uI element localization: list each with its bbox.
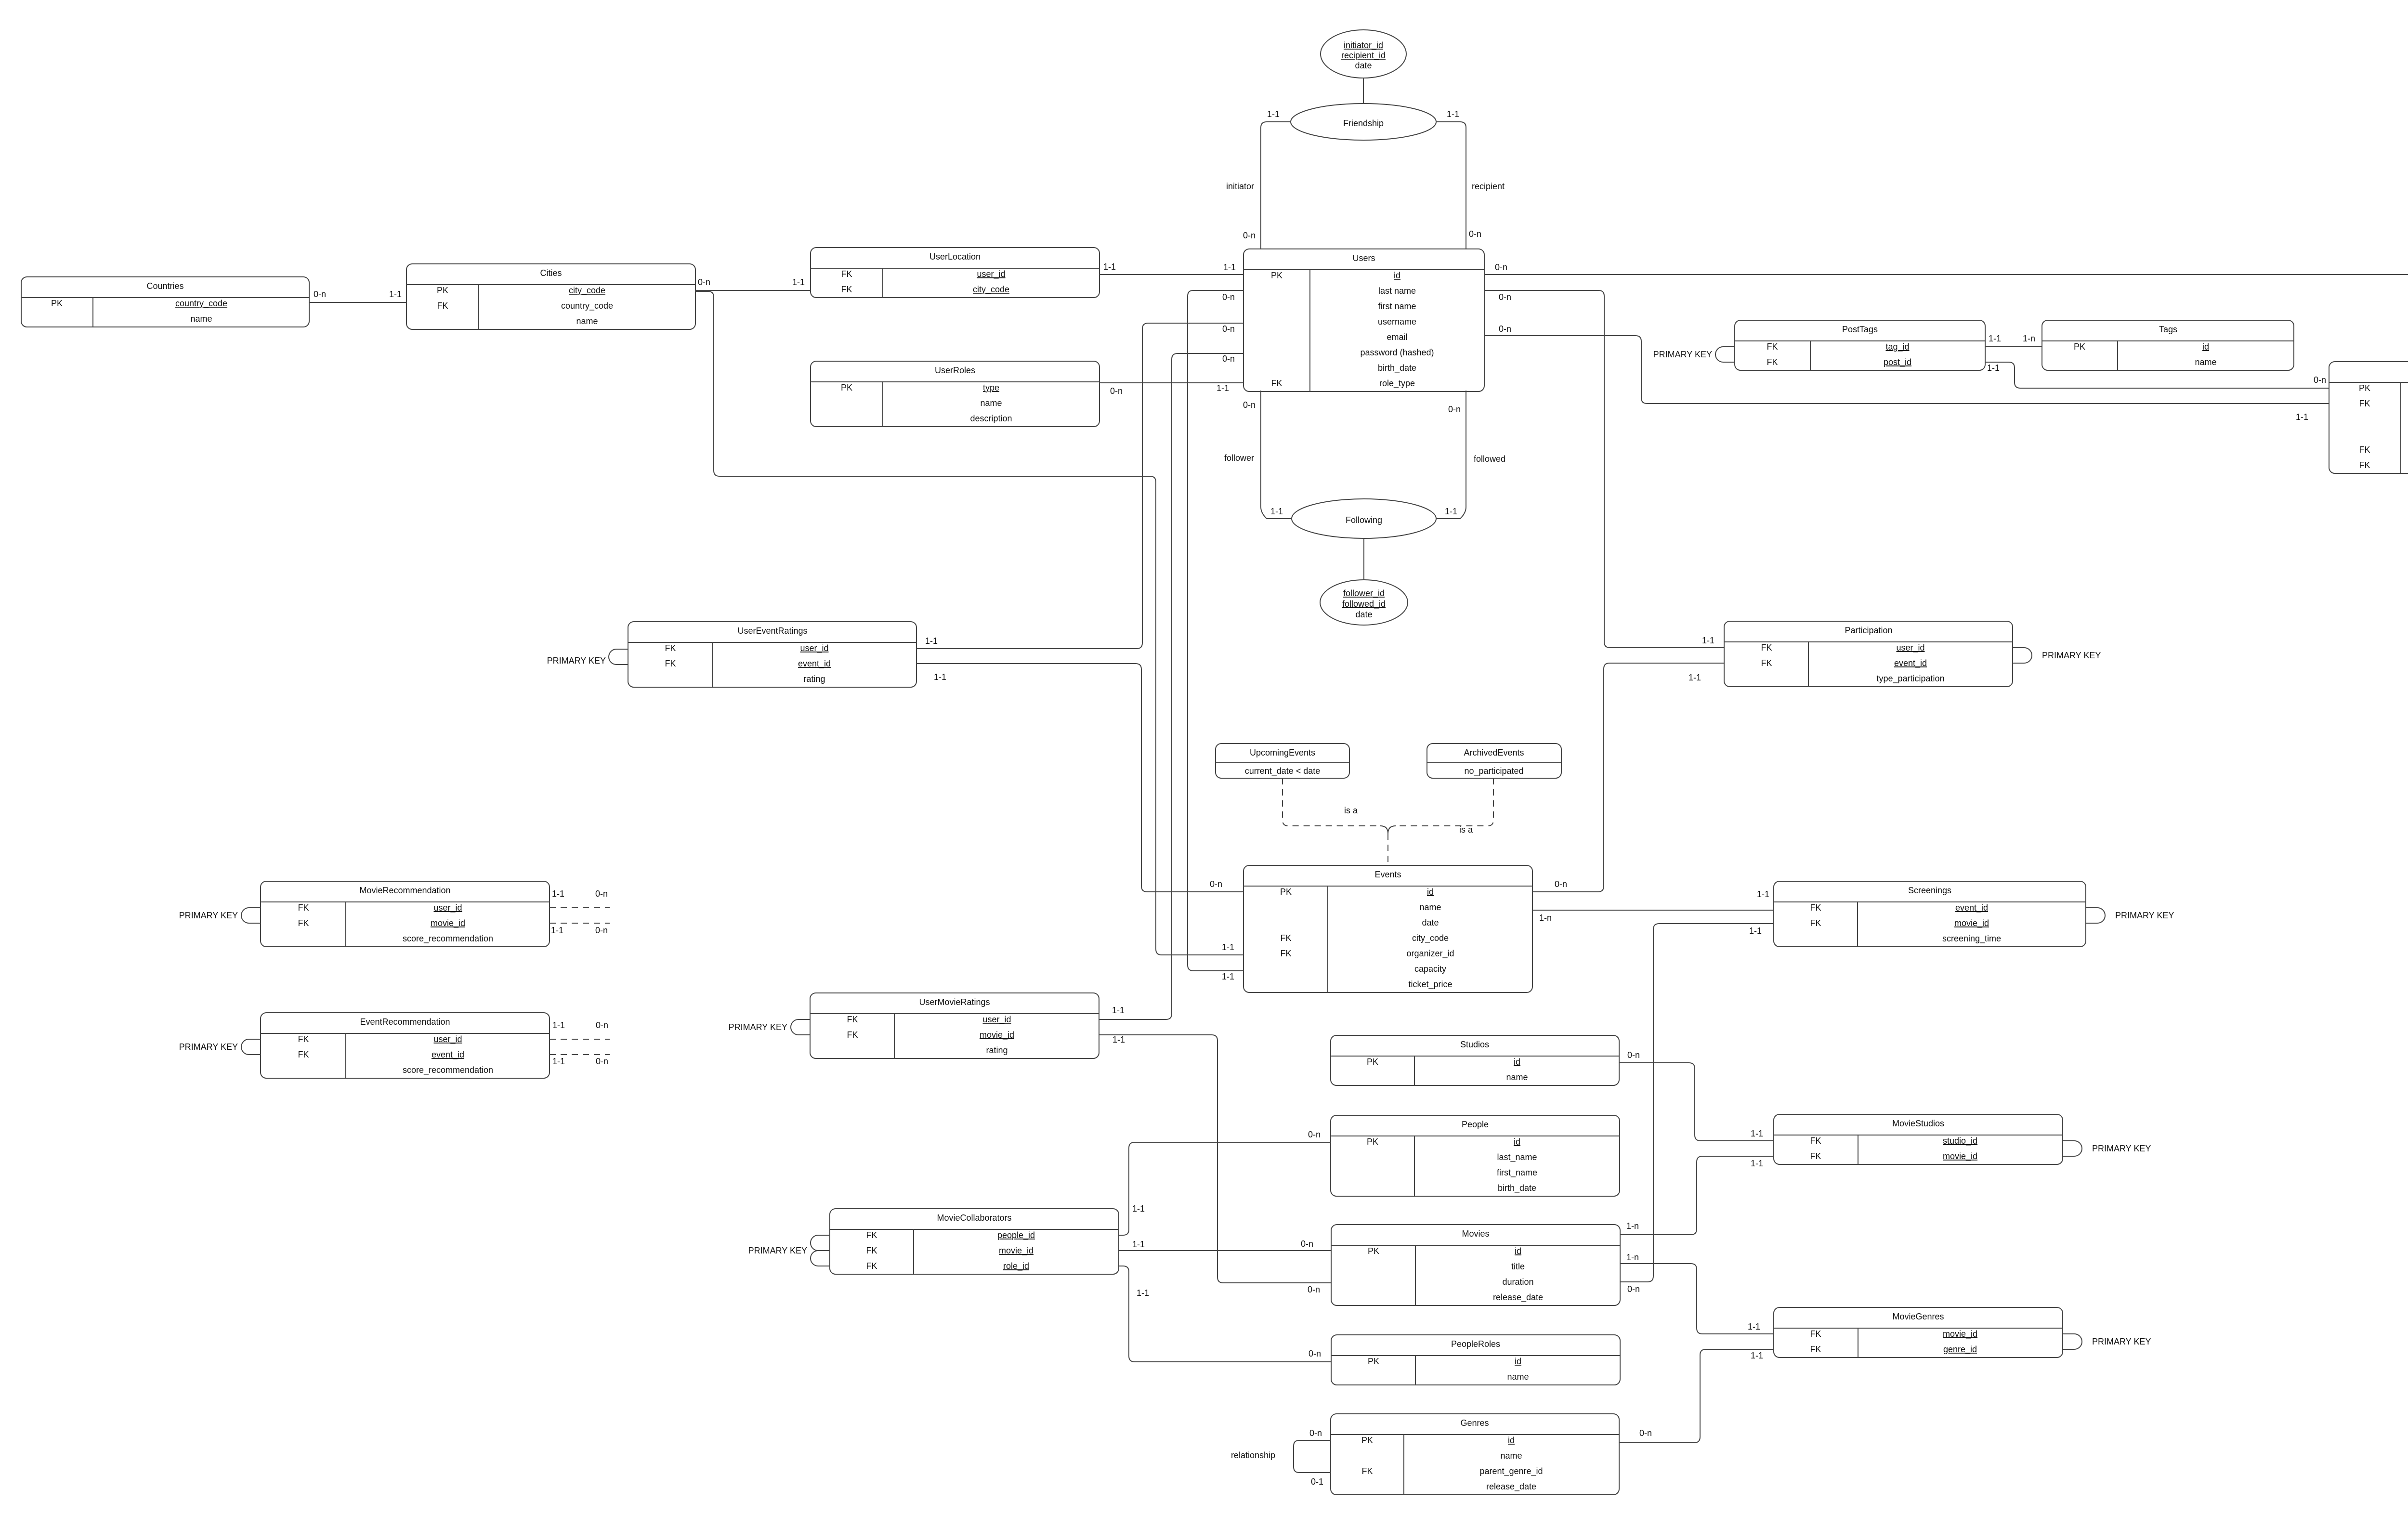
svg-text:FK: FK xyxy=(847,1030,858,1040)
svg-text:0-n: 0-n xyxy=(1555,879,1567,889)
svg-text:Users: Users xyxy=(1352,253,1375,263)
attribute ellipse for Following (follower_id, followed_id, date) xyxy=(1320,580,1408,625)
svg-text:MovieGenres: MovieGenres xyxy=(1892,1312,1944,1321)
entity table Movies xyxy=(1331,1225,1620,1305)
primary key bracket MovieStudios xyxy=(2063,1141,2082,1156)
svg-text:FK: FK xyxy=(1761,658,1772,668)
svg-text:1-1: 1-1 xyxy=(1757,889,1769,899)
entity table PeopleRoles xyxy=(1331,1335,1620,1385)
svg-text:movie_id: movie_id xyxy=(980,1030,1014,1040)
svg-text:1-1: 1-1 xyxy=(389,289,402,299)
svg-text:1-1: 1-1 xyxy=(1688,673,1701,682)
svg-text:1-1: 1-1 xyxy=(1112,1035,1125,1044)
primary key bracket MovieGenres xyxy=(2063,1334,2082,1349)
svg-text:ticket_price: ticket_price xyxy=(1408,979,1452,990)
svg-text:FK: FK xyxy=(2359,399,2370,408)
svg-text:1-1: 1-1 xyxy=(1748,1322,1760,1331)
primary key bracket MovieRecommendation xyxy=(241,908,261,923)
primary key bracket UserMovieRatings xyxy=(791,1019,810,1035)
wire Users follower to Following xyxy=(1261,391,1291,519)
entity table Screenings xyxy=(1774,881,2086,947)
wire Genres to MovieGenres xyxy=(1619,1349,1774,1443)
primary key bracket EventRecommendation xyxy=(241,1039,261,1055)
svg-text:0-n: 0-n xyxy=(698,277,710,287)
svg-text:1-1: 1-1 xyxy=(1749,926,1762,936)
wire Users to UserEventRatings user_id xyxy=(916,323,1243,649)
svg-text:PeopleRoles: PeopleRoles xyxy=(1451,1339,1500,1349)
wire PostTags to Tags xyxy=(1985,346,2042,347)
svg-text:score_recommendation: score_recommendation xyxy=(403,1065,493,1075)
svg-text:FK: FK xyxy=(866,1261,877,1271)
svg-text:FK: FK xyxy=(1810,918,1821,928)
entity table UserEventRatings xyxy=(628,622,916,687)
wire Cities to UserLocation xyxy=(695,290,811,291)
wire Movies to MovieGenres xyxy=(1620,1264,1774,1334)
svg-text:date: date xyxy=(1355,610,1372,619)
svg-text:no_participated: no_participated xyxy=(1464,766,1523,776)
svg-text:country_code: country_code xyxy=(175,299,227,309)
wire UserRoles to Users xyxy=(1099,382,1243,383)
entity table Countries xyxy=(21,277,309,327)
svg-text:FK: FK xyxy=(1767,357,1778,367)
svg-text:1-1: 1-1 xyxy=(1987,363,2000,373)
svg-text:movie_id: movie_id xyxy=(1954,918,1989,928)
svg-text:1-1: 1-1 xyxy=(1445,507,1457,516)
svg-text:FK: FK xyxy=(847,1015,858,1024)
relationship ellipse Friendship xyxy=(1291,104,1436,140)
svg-text:FK: FK xyxy=(1761,643,1772,653)
svg-text:first_name: first_name xyxy=(1497,1168,1537,1178)
svg-text:recipient_id: recipient_id xyxy=(1341,51,1386,61)
svg-text:genre_id: genre_id xyxy=(1943,1344,1977,1355)
svg-text:city_code: city_code xyxy=(973,285,1009,295)
svg-text:FK: FK xyxy=(298,1034,309,1044)
svg-text:follower_id: follower_id xyxy=(1343,588,1385,599)
svg-text:PRIMARY KEY: PRIMARY KEY xyxy=(2115,911,2174,920)
wire Users to Posts user_id xyxy=(1484,336,2329,404)
svg-text:1-1: 1-1 xyxy=(1222,942,1234,952)
dashed wire MovieRecommendation user_id xyxy=(550,907,610,908)
entity table MovieRecommendation xyxy=(261,881,550,947)
svg-text:1-1: 1-1 xyxy=(934,672,946,682)
svg-text:MovieCollaborators: MovieCollaborators xyxy=(937,1213,1011,1223)
svg-text:PRIMARY KEY: PRIMARY KEY xyxy=(729,1022,787,1032)
svg-text:FK: FK xyxy=(298,918,309,928)
svg-text:PK: PK xyxy=(51,299,63,308)
svg-text:name: name xyxy=(1500,1451,1522,1461)
svg-text:1-n: 1-n xyxy=(2023,334,2035,343)
svg-text:is a: is a xyxy=(1459,825,1473,835)
svg-text:1-1: 1-1 xyxy=(1112,1005,1125,1015)
entity table Participation xyxy=(1724,621,2013,687)
svg-text:PK: PK xyxy=(1368,1246,1379,1256)
wire Users to Reactions xyxy=(1484,274,2408,275)
svg-text:0-n: 0-n xyxy=(596,1020,608,1030)
svg-text:user_id: user_id xyxy=(982,1015,1011,1025)
svg-text:is a: is a xyxy=(1344,806,1358,815)
svg-text:city_code: city_code xyxy=(569,286,605,296)
svg-text:1-1: 1-1 xyxy=(925,636,938,646)
svg-text:0-n: 0-n xyxy=(1469,229,1481,239)
svg-text:PK: PK xyxy=(1361,1436,1373,1445)
svg-text:name: name xyxy=(2195,357,2216,367)
svg-text:0-n: 0-n xyxy=(1301,1239,1313,1249)
svg-text:0-n: 0-n xyxy=(595,926,608,935)
dashed wire ArchivedEvents is a xyxy=(1396,778,1493,826)
svg-text:PRIMARY KEY: PRIMARY KEY xyxy=(748,1246,807,1255)
svg-text:Screenings: Screenings xyxy=(1908,886,1951,895)
svg-text:user_id: user_id xyxy=(433,1034,462,1044)
wire Friendship attributes to Friendship xyxy=(1363,78,1364,104)
svg-text:1-1: 1-1 xyxy=(1137,1288,1149,1298)
svg-text:0-n: 0-n xyxy=(1499,324,1511,334)
svg-text:FK: FK xyxy=(1810,903,1821,913)
entity table Posts xyxy=(2329,362,2408,473)
svg-text:PRIMARY KEY: PRIMARY KEY xyxy=(1653,350,1712,359)
svg-text:role_type: role_type xyxy=(1379,378,1415,389)
svg-text:description: description xyxy=(970,414,1012,423)
svg-text:PK: PK xyxy=(1367,1057,1378,1067)
svg-text:FK: FK xyxy=(1280,949,1291,958)
svg-text:FK: FK xyxy=(1810,1151,1821,1161)
svg-text:0-n: 0-n xyxy=(314,289,326,299)
entity table UserLocation xyxy=(811,248,1099,298)
svg-text:FK: FK xyxy=(298,903,309,913)
svg-text:user_id: user_id xyxy=(1896,643,1924,653)
wire Studios to MovieStudios xyxy=(1619,1063,1774,1141)
svg-text:0-1: 0-1 xyxy=(1311,1477,1323,1487)
svg-text:name: name xyxy=(1506,1072,1528,1082)
svg-text:FK: FK xyxy=(866,1246,877,1255)
svg-text:name: name xyxy=(190,314,212,324)
svg-text:movie_id: movie_id xyxy=(1943,1151,1977,1162)
dashed wire is a junction to Events xyxy=(1387,834,1388,865)
wire Cities to Events city_code xyxy=(695,291,1243,955)
svg-text:id: id xyxy=(2202,342,2209,352)
svg-text:0-n: 0-n xyxy=(595,889,608,899)
entity table MovieStudios xyxy=(1774,1114,2063,1164)
svg-text:FK: FK xyxy=(1361,1466,1373,1476)
svg-text:1-1: 1-1 xyxy=(1989,334,2001,343)
svg-text:id: id xyxy=(1515,1246,1521,1256)
svg-text:Cities: Cities xyxy=(540,268,562,278)
svg-text:rating: rating xyxy=(803,674,825,684)
svg-text:Following: Following xyxy=(1346,515,1382,525)
svg-text:Events: Events xyxy=(1374,870,1401,879)
primary key bracket PostTags xyxy=(1715,347,1735,362)
svg-text:0-n: 0-n xyxy=(1627,1284,1640,1294)
svg-text:PRIMARY KEY: PRIMARY KEY xyxy=(2092,1337,2151,1346)
svg-text:PK: PK xyxy=(1280,887,1292,897)
svg-text:0-n: 0-n xyxy=(1243,231,1256,240)
svg-text:FK: FK xyxy=(2359,460,2370,470)
svg-text:id: id xyxy=(1514,1057,1520,1067)
svg-text:user_id: user_id xyxy=(433,903,462,913)
svg-text:PRIMARY KEY: PRIMARY KEY xyxy=(2092,1144,2151,1153)
svg-text:0-n: 0-n xyxy=(2314,375,2326,385)
svg-text:follower: follower xyxy=(1224,453,1254,463)
svg-text:event_id: event_id xyxy=(432,1050,464,1060)
svg-text:1-1: 1-1 xyxy=(1702,636,1714,645)
entity table Cities xyxy=(406,264,695,329)
svg-text:0-n: 0-n xyxy=(1110,386,1123,396)
svg-text:0-n: 0-n xyxy=(596,1057,608,1066)
svg-text:1-1: 1-1 xyxy=(1222,972,1234,981)
svg-text:1-1: 1-1 xyxy=(1751,1351,1763,1360)
svg-text:id: id xyxy=(1514,1137,1520,1147)
svg-text:username: username xyxy=(1378,317,1416,326)
svg-text:1-1: 1-1 xyxy=(551,926,563,935)
svg-text:1-n: 1-n xyxy=(1626,1253,1639,1262)
svg-text:PK: PK xyxy=(1271,271,1283,280)
svg-text:id: id xyxy=(1427,887,1434,897)
entity table Events xyxy=(1243,865,1532,992)
svg-text:first name: first name xyxy=(1378,301,1416,311)
svg-text:0-n: 0-n xyxy=(1308,1285,1320,1294)
is a junction brace xyxy=(1380,826,1396,834)
svg-text:capacity: capacity xyxy=(1414,964,1446,974)
svg-text:0-n: 0-n xyxy=(1627,1050,1640,1060)
svg-text:last_name: last_name xyxy=(1497,1152,1537,1162)
svg-text:Countries: Countries xyxy=(146,281,183,291)
svg-text:PRIMARY KEY: PRIMARY KEY xyxy=(179,1042,238,1052)
svg-text:Genres: Genres xyxy=(1460,1418,1489,1428)
svg-text:UserRoles: UserRoles xyxy=(935,365,975,375)
svg-text:organizer_id: organizer_id xyxy=(1406,949,1454,959)
wire Events to Participation event_id xyxy=(1532,663,1724,892)
svg-text:PRIMARY KEY: PRIMARY KEY xyxy=(2042,651,2101,660)
entity table MovieGenres xyxy=(1774,1307,2063,1357)
svg-text:UpcomingEvents: UpcomingEvents xyxy=(1250,748,1315,757)
svg-text:UserLocation: UserLocation xyxy=(929,252,981,261)
entity table People xyxy=(1331,1115,1620,1196)
svg-text:PK: PK xyxy=(1368,1357,1379,1366)
svg-text:1-1: 1-1 xyxy=(792,277,805,287)
svg-text:PRIMARY KEY: PRIMARY KEY xyxy=(179,911,238,920)
entity table PostTags xyxy=(1735,320,1985,370)
svg-text:1-1: 1-1 xyxy=(1751,1129,1763,1138)
entity table Tags xyxy=(2042,320,2294,370)
svg-text:Friendship: Friendship xyxy=(1343,118,1384,128)
svg-text:ArchivedEvents: ArchivedEvents xyxy=(1464,748,1524,757)
svg-text:release_date: release_date xyxy=(1493,1292,1543,1303)
wire Users to UserMovieRatings user_id xyxy=(1099,353,1243,1019)
svg-text:0-n: 0-n xyxy=(1222,292,1235,302)
svg-text:PK: PK xyxy=(2074,342,2085,352)
svg-text:Tags: Tags xyxy=(2159,325,2177,334)
svg-text:tag_id: tag_id xyxy=(1885,342,1909,352)
entity table EventRecommendation xyxy=(261,1013,550,1078)
svg-text:1-1: 1-1 xyxy=(1217,383,1229,393)
wire Users to Participation user_id xyxy=(1484,290,1724,648)
svg-text:0-n: 0-n xyxy=(1309,1349,1321,1358)
svg-text:name: name xyxy=(576,316,598,326)
entity table Studios xyxy=(1331,1035,1619,1085)
wire Events to Screenings xyxy=(1532,910,1774,911)
wire MovieCollaborators people_id to People xyxy=(1119,1142,1331,1235)
svg-text:screening_time: screening_time xyxy=(1942,934,2001,944)
wire UserLocation to Users xyxy=(1099,274,1243,275)
svg-text:parent_genre_id: parent_genre_id xyxy=(1479,1466,1543,1476)
svg-text:post_id: post_id xyxy=(1884,357,1911,367)
svg-text:city_code: city_code xyxy=(1412,933,1449,943)
wire Users followed to Following xyxy=(1436,391,1466,519)
svg-text:FK: FK xyxy=(1810,1329,1821,1339)
wire MovieCollaborators movie_id to Movies xyxy=(1119,1250,1331,1251)
svg-text:FK: FK xyxy=(665,643,676,653)
svg-text:PK: PK xyxy=(1367,1137,1378,1147)
svg-text:0-n: 0-n xyxy=(1308,1130,1321,1139)
wire Following to its attributes xyxy=(1363,538,1364,580)
svg-text:date: date xyxy=(1355,61,1372,70)
svg-text:initiator_id: initiator_id xyxy=(1344,40,1383,51)
svg-text:0-n: 0-n xyxy=(1448,405,1461,414)
svg-text:1-1: 1-1 xyxy=(552,1057,565,1066)
svg-text:rating: rating xyxy=(986,1045,1008,1055)
svg-text:name: name xyxy=(1419,902,1441,912)
svg-text:FK: FK xyxy=(841,269,852,279)
svg-text:1-1: 1-1 xyxy=(1132,1240,1145,1249)
svg-text:0-n: 0-n xyxy=(1495,262,1507,272)
svg-text:FK: FK xyxy=(866,1230,877,1240)
svg-text:EventRecommendation: EventRecommendation xyxy=(360,1017,450,1027)
wire Friendship recipient to Users xyxy=(1436,122,1466,249)
svg-text:id: id xyxy=(1508,1436,1515,1445)
svg-text:type_participation: type_participation xyxy=(1876,674,1944,684)
svg-text:PK: PK xyxy=(437,286,448,295)
svg-text:MovieStudios: MovieStudios xyxy=(1892,1119,1944,1128)
entity table UserMovieRatings xyxy=(810,993,1099,1058)
svg-text:FK: FK xyxy=(298,1050,309,1059)
svg-text:id: id xyxy=(1394,271,1400,280)
svg-text:PostTags: PostTags xyxy=(1842,325,1878,334)
svg-text:FK: FK xyxy=(1767,342,1778,352)
wire UserMovieRatings movie_id to Movies xyxy=(1099,1035,1331,1283)
svg-text:relationship: relationship xyxy=(1231,1450,1275,1460)
svg-text:0-n: 0-n xyxy=(1222,354,1235,364)
svg-text:MovieRecommendation: MovieRecommendation xyxy=(359,886,450,895)
entity table UserRoles xyxy=(811,361,1099,427)
svg-text:1-1: 1-1 xyxy=(2296,412,2308,422)
svg-text:movie_id: movie_id xyxy=(1943,1329,1977,1339)
svg-text:1-1: 1-1 xyxy=(552,889,564,899)
wire Genres self relationship xyxy=(1294,1440,1331,1473)
svg-text:1-1: 1-1 xyxy=(1132,1204,1145,1214)
svg-text:country_code: country_code xyxy=(561,301,613,311)
primary key bracket MovieCollaborators xyxy=(811,1235,830,1251)
svg-text:last name: last name xyxy=(1378,286,1416,296)
svg-text:1-1: 1-1 xyxy=(1447,109,1459,119)
svg-text:user_id: user_id xyxy=(977,269,1005,279)
primary key bracket UserEventRatings xyxy=(609,649,628,665)
svg-text:FK: FK xyxy=(1810,1344,1821,1354)
entity table Genres xyxy=(1331,1414,1619,1495)
svg-text:current_date < date: current_date < date xyxy=(1245,766,1321,776)
svg-text:0-n: 0-n xyxy=(1639,1428,1652,1438)
svg-text:duration: duration xyxy=(1502,1277,1533,1287)
svg-text:1-1: 1-1 xyxy=(1751,1159,1763,1168)
svg-text:event_id: event_id xyxy=(798,659,831,669)
svg-text:password (hashed): password (hashed) xyxy=(1360,348,1434,357)
svg-text:event_id: event_id xyxy=(1955,903,1988,913)
svg-text:followed_id: followed_id xyxy=(1342,599,1386,609)
entity table Users xyxy=(1243,249,1484,392)
svg-text:name: name xyxy=(1507,1372,1529,1382)
relationship ellipse Following xyxy=(1292,499,1436,538)
svg-text:studio_id: studio_id xyxy=(1943,1136,1977,1146)
svg-text:event_id: event_id xyxy=(1894,658,1927,668)
svg-text:People: People xyxy=(1462,1120,1489,1129)
svg-text:1-1: 1-1 xyxy=(552,1020,565,1030)
svg-text:id: id xyxy=(1515,1357,1521,1366)
derived entity ArchivedEvents xyxy=(1427,744,1561,778)
svg-text:FK: FK xyxy=(841,285,852,294)
svg-text:1-n: 1-n xyxy=(1539,913,1552,923)
svg-text:FK: FK xyxy=(1810,1136,1821,1146)
svg-text:1-n: 1-n xyxy=(1626,1221,1639,1231)
svg-text:birth_date: birth_date xyxy=(1498,1183,1536,1193)
svg-text:PK: PK xyxy=(2359,383,2370,393)
svg-text:title: title xyxy=(1511,1262,1525,1271)
dashed wire EventRecommendation event_id xyxy=(550,1054,610,1055)
wire Countries to Cities xyxy=(309,302,406,303)
wire MovieCollaborators role_id to PeopleRoles xyxy=(1119,1266,1331,1362)
svg-text:people_id: people_id xyxy=(997,1230,1035,1240)
svg-text:PK: PK xyxy=(841,383,852,392)
svg-text:user_id: user_id xyxy=(800,643,828,653)
svg-text:email: email xyxy=(1387,332,1407,342)
svg-text:role_id: role_id xyxy=(1003,1261,1029,1271)
primary key bracket Screenings xyxy=(2086,908,2105,923)
svg-text:PRIMARY KEY: PRIMARY KEY xyxy=(547,656,606,666)
svg-text:0-n: 0-n xyxy=(1499,292,1511,302)
svg-text:0-n: 0-n xyxy=(1309,1428,1322,1438)
svg-text:1-1: 1-1 xyxy=(1103,262,1116,272)
svg-text:1-1: 1-1 xyxy=(1270,507,1283,516)
svg-text:name: name xyxy=(980,398,1002,408)
wire Users to Events organizer xyxy=(1188,290,1243,971)
svg-text:0-n: 0-n xyxy=(1243,400,1256,410)
svg-text:followed: followed xyxy=(1474,454,1505,464)
svg-text:score_recommendation: score_recommendation xyxy=(403,934,493,944)
entity table MovieCollaborators xyxy=(830,1209,1119,1274)
svg-text:release_date: release_date xyxy=(1486,1482,1536,1492)
svg-text:FK: FK xyxy=(1271,378,1282,388)
svg-text:movie_id: movie_id xyxy=(999,1246,1034,1256)
wire UserEventRatings event_id to Events xyxy=(916,664,1243,892)
svg-text:FK: FK xyxy=(665,659,676,668)
svg-text:Participation: Participation xyxy=(1845,626,1892,635)
attribute ellipse for Friendship (initiator_id, recipient_id, date) xyxy=(1321,30,1406,78)
wire PostTags to Posts xyxy=(1985,362,2329,388)
dashed wire EventRecommendation user_id xyxy=(550,1039,610,1040)
primary key bracket Participation xyxy=(2013,648,2032,663)
svg-text:0-n: 0-n xyxy=(1210,879,1222,889)
svg-text:0-n: 0-n xyxy=(1222,324,1235,334)
svg-text:FK: FK xyxy=(2359,445,2370,455)
dashed wire UpcomingEvents is a xyxy=(1283,778,1380,826)
svg-text:1-1: 1-1 xyxy=(1223,262,1236,272)
svg-text:type: type xyxy=(983,383,999,392)
svg-text:birth_date: birth_date xyxy=(1378,363,1416,373)
wire Movies to MovieStudios xyxy=(1620,1156,1774,1235)
svg-text:UserMovieRatings: UserMovieRatings xyxy=(919,997,990,1007)
svg-text:recipient: recipient xyxy=(1472,182,1505,191)
svg-text:1-1: 1-1 xyxy=(1267,109,1280,119)
derived entity UpcomingEvents xyxy=(1216,744,1349,778)
svg-text:FK: FK xyxy=(437,301,448,311)
svg-text:FK: FK xyxy=(1280,933,1291,943)
